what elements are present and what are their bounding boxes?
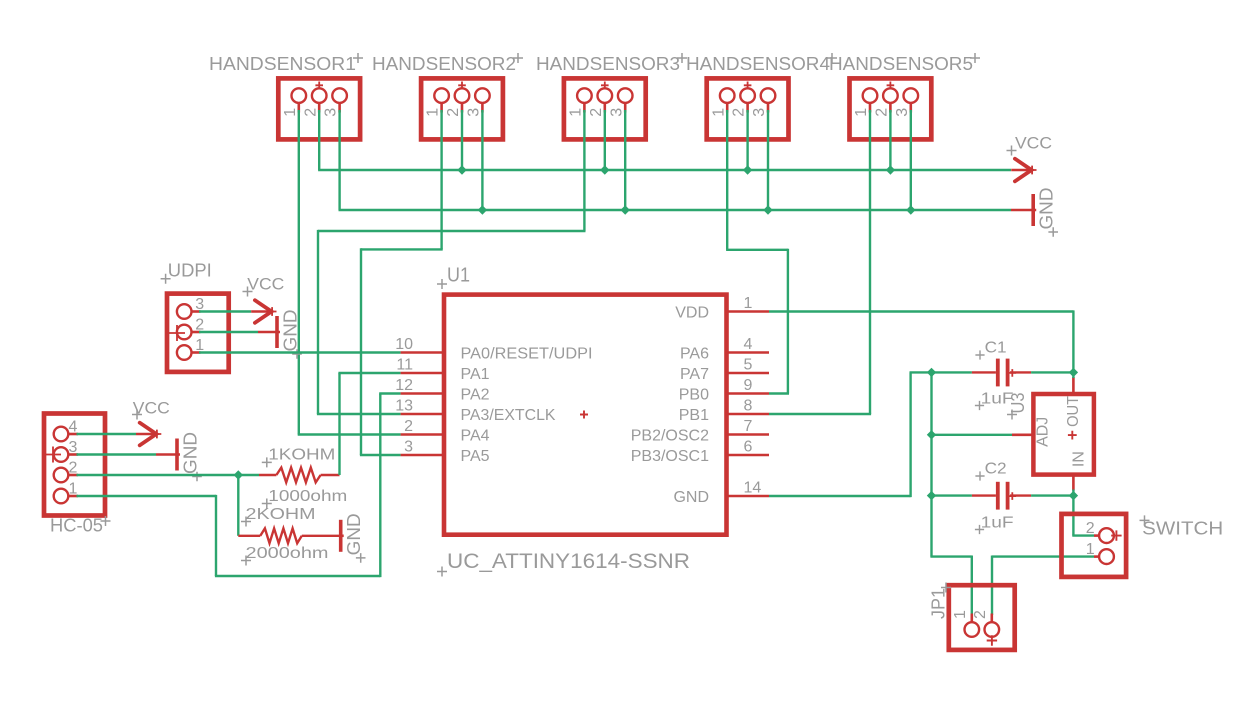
value label 1uF C2	[975, 515, 1014, 535]
svg-text:PB3/OSC1: PB3/OSC1	[631, 448, 709, 465]
label U3	[1007, 393, 1028, 420]
label VCC top right	[1007, 134, 1053, 155]
svg-text:C2: C2	[985, 461, 1007, 478]
label UDPI	[161, 260, 212, 284]
junction C2 left GND column	[927, 491, 936, 500]
wire UDPI pin1 to U1 PA0 pin10	[199, 351, 401, 353]
label VCC at UDPI	[243, 276, 285, 297]
wire junction down to R2	[237, 475, 239, 536]
junction C2 right IN node	[1069, 491, 1078, 500]
ground GND symbol at HC-05	[156, 432, 202, 481]
junction GND rail at HANDSENSOR5 pin3	[906, 205, 915, 214]
label HC-05	[50, 515, 111, 536]
label C1	[975, 340, 1006, 360]
wire C1 right to VDD node	[1031, 371, 1073, 373]
svg-text:PA4: PA4	[461, 427, 490, 444]
pin numbers HANDSENSOR4	[710, 108, 768, 117]
connector HANDSENSOR4	[707, 78, 789, 139]
svg-text:HANDSENSOR4: HANDSENSOR4	[686, 53, 830, 74]
node resistor divider junction	[234, 470, 243, 479]
svg-text:3: 3	[466, 108, 483, 117]
svg-text:PA2: PA2	[461, 386, 490, 403]
svg-text:ADJ: ADJ	[1035, 417, 1052, 447]
label 2KOHM	[241, 506, 316, 527]
label C2	[975, 461, 1006, 481]
svg-text:12: 12	[395, 377, 413, 394]
connector HC-05	[44, 414, 105, 516]
wire HANDSENSOR3 pin2 to VCC rail	[604, 110, 606, 170]
svg-text:OUT: OUT	[1065, 396, 1082, 427]
svg-text:10: 10	[395, 336, 413, 353]
wire HC-05 pin4 to VCC	[77, 433, 137, 435]
junction C1 left GND column	[927, 368, 936, 377]
wire HANDSENSOR2 pin1 to U1 PA5	[360, 110, 443, 455]
label 1KOHM	[262, 447, 336, 468]
pin name ADJ U3	[1035, 417, 1052, 447]
pin numbers HANDSENSOR2	[425, 108, 483, 117]
wire HANDSENSOR4 pin3 to GND rail	[767, 110, 769, 210]
svg-text:PA1: PA1	[461, 366, 490, 383]
svg-text:9: 9	[744, 377, 753, 394]
junction GND rail at HANDSENSOR2 pin3	[478, 205, 487, 214]
svg-text:4: 4	[69, 419, 78, 436]
label HANDSENSOR5	[829, 53, 980, 74]
svg-text:GND: GND	[343, 513, 364, 555]
svg-text:1: 1	[744, 295, 753, 312]
pin numbers HC-05	[69, 419, 78, 498]
svg-text:GND: GND	[673, 489, 709, 506]
svg-text:HANDSENSOR2: HANDSENSOR2	[372, 53, 516, 74]
svg-text:VDD: VDD	[675, 304, 709, 321]
pin name OUT U3	[1065, 396, 1082, 427]
label SWITCH	[1140, 515, 1224, 538]
connector HANDSENSOR2	[421, 78, 503, 139]
svg-text:3: 3	[751, 108, 768, 117]
svg-text:5: 5	[744, 357, 753, 374]
power VCC symbol at UDPI	[251, 300, 276, 323]
svg-text:PA5: PA5	[461, 448, 490, 465]
voltage regulator U3 body and pins	[1012, 377, 1094, 491]
svg-text:2: 2	[1086, 520, 1095, 537]
svg-text:UDPI: UDPI	[168, 260, 212, 281]
svg-text:HC-05: HC-05	[50, 515, 103, 536]
junction VCC rail at HANDSENSOR3 pin2	[600, 165, 609, 174]
wire HC-05 pin3 to GND	[77, 453, 157, 455]
wire OUT to C1 node	[1072, 372, 1074, 378]
svg-text:U3: U3	[1007, 393, 1028, 414]
junction GND rail at HANDSENSOR3 pin3	[621, 205, 630, 214]
svg-text:U1: U1	[447, 265, 470, 287]
value label 2000ohm	[241, 545, 329, 566]
wire VCC rail from HANDSENSOR1 pin2 across to VCC symbol	[318, 110, 1011, 170]
svg-text:1: 1	[69, 481, 78, 498]
pin name IN U3	[1070, 451, 1087, 467]
label HANDSENSOR1	[209, 53, 363, 74]
wire R1 to U1 PA1	[338, 373, 400, 475]
svg-text:GND: GND	[1036, 188, 1057, 230]
wire HANDSENSOR4 pin1 to U1 PB0	[726, 110, 789, 394]
power VCC symbol top right	[1011, 159, 1036, 182]
junction ADJ GND column	[927, 430, 936, 439]
svg-text:1: 1	[282, 108, 299, 117]
svg-text:3: 3	[608, 108, 625, 117]
connector HANDSENSOR3	[564, 78, 646, 139]
wire IN node to SWITCH pin2	[1072, 496, 1094, 536]
connector UDPI	[167, 294, 229, 372]
connector SWITCH	[1062, 514, 1127, 577]
svg-text:1: 1	[952, 610, 969, 619]
svg-text:2000ohm: 2000ohm	[246, 545, 329, 562]
svg-text:2: 2	[404, 418, 413, 435]
svg-text:VCC: VCC	[247, 276, 284, 294]
resistor R2 2KOHM	[238, 528, 339, 543]
svg-text:6: 6	[744, 439, 753, 456]
pin numbers JP1	[952, 610, 989, 619]
svg-text:3: 3	[323, 108, 340, 117]
label HANDSENSOR4	[686, 53, 837, 74]
wire GND column to U3 ADJ	[932, 434, 1013, 436]
svg-text:13: 13	[395, 398, 413, 415]
wire U1 GND pin14 to GND node	[769, 372, 932, 497]
IC U1 UC_ATTINY1614-SSNR body and pin stubs	[401, 295, 769, 535]
wire HC-05 pin1 to U1 PA2	[77, 394, 401, 578]
svg-text:HANDSENSOR5: HANDSENSOR5	[829, 53, 973, 74]
wire GND node to C2 left	[932, 494, 972, 496]
capacitor C2	[972, 482, 1031, 510]
svg-text:HANDSENSOR1: HANDSENSOR1	[209, 53, 356, 74]
svg-text:1: 1	[1086, 541, 1095, 558]
wire HANDSENSOR2 pin2 to VCC rail	[461, 110, 463, 170]
svg-text:HANDSENSOR3: HANDSENSOR3	[536, 53, 680, 74]
wire HANDSENSOR2 pin3 to GND rail	[481, 110, 483, 210]
wire HANDSENSOR5 pin1 to U1 PB1	[769, 110, 871, 414]
label HANDSENSOR2	[372, 53, 523, 74]
wire HANDSENSOR4 pin2 to VCC rail	[746, 110, 748, 170]
power VCC symbol at HC-05	[136, 423, 161, 446]
svg-text:1: 1	[425, 108, 442, 117]
label JP1	[928, 583, 951, 620]
capacitor C1	[972, 359, 1031, 387]
svg-text:3: 3	[404, 439, 413, 456]
junction VCC rail at HANDSENSOR5 pin2	[886, 165, 895, 174]
wire HANDSENSOR1 pin1 to U1 PA4	[298, 110, 401, 435]
svg-text:PA0/RESET/UDPI: PA0/RESET/UDPI	[461, 345, 593, 362]
wire U1 VDD to C1/OUT node	[769, 310, 1073, 372]
svg-text:IN: IN	[1070, 451, 1087, 467]
svg-text:8: 8	[744, 398, 753, 415]
pin numbers HANDSENSOR1	[282, 108, 340, 117]
svg-text:1: 1	[568, 108, 585, 117]
svg-text:PA6: PA6	[680, 345, 709, 362]
svg-text:GND: GND	[280, 310, 301, 352]
pin numbers and pin names U1	[395, 295, 761, 506]
svg-text:2: 2	[302, 108, 319, 117]
junction GND rail at HANDSENSOR4 pin3	[763, 205, 772, 214]
ground GND symbol at R2	[339, 513, 366, 562]
svg-text:7: 7	[744, 418, 753, 435]
svg-text:1uF: 1uF	[981, 515, 1014, 532]
wire HANDSENSOR3 pin1 to U1 PA3	[317, 110, 586, 414]
svg-text:1: 1	[853, 108, 870, 117]
wire GND column down to JP1 pin1	[930, 372, 971, 615]
ground GND symbol top right	[1011, 188, 1058, 237]
svg-text:VCC: VCC	[1015, 134, 1052, 152]
label U1	[437, 265, 470, 290]
wire HANDSENSOR5 pin2 to VCC rail	[889, 110, 891, 170]
svg-text:1000ohm: 1000ohm	[268, 488, 347, 505]
wire HANDSENSOR3 pin3 to GND rail	[624, 110, 626, 210]
wire junction to R1	[238, 474, 259, 476]
svg-text:PA3/EXTCLK: PA3/EXTCLK	[461, 407, 556, 424]
wire IN to C2 node	[1072, 490, 1074, 496]
svg-text:1KOHM: 1KOHM	[268, 447, 335, 464]
label HANDSENSOR3	[536, 53, 687, 74]
svg-text:SWITCH: SWITCH	[1142, 518, 1223, 539]
resistor R1 1KOHM	[259, 468, 340, 483]
svg-text:UC_ATTINY1614-SSNR: UC_ATTINY1614-SSNR	[447, 549, 690, 573]
svg-text:2: 2	[588, 108, 605, 117]
value label 1000ohm	[262, 488, 348, 509]
value label 1uF C1	[975, 390, 1014, 410]
svg-text:2: 2	[445, 108, 462, 117]
label VCC at HC-05	[132, 399, 170, 419]
wire GND node to C1 left	[932, 371, 972, 373]
connector HANDSENSOR1	[278, 78, 360, 139]
connector HANDSENSOR5	[850, 78, 932, 139]
svg-text:1: 1	[710, 108, 727, 117]
svg-text:2: 2	[972, 610, 989, 619]
wire GND rail from HANDSENSOR1 pin3 across to GND symbol	[339, 110, 1012, 210]
svg-text:JP1: JP1	[928, 588, 949, 619]
wire UDPI pin2 to GND	[199, 331, 258, 333]
pin numbers SWITCH	[1086, 520, 1095, 558]
junction VCC rail at HANDSENSOR4 pin2	[743, 165, 752, 174]
svg-text:14: 14	[744, 480, 762, 497]
pin numbers UDPI	[195, 296, 204, 354]
wire SWITCH pin1 to JP1 pin2	[992, 556, 1094, 616]
svg-text:2KOHM: 2KOHM	[246, 506, 316, 523]
svg-text:2: 2	[731, 108, 748, 117]
wire HC-05 pin2 to resistor node	[77, 474, 239, 476]
junction VCC rail at HANDSENSOR2 pin2	[457, 165, 466, 174]
svg-text:C1: C1	[985, 340, 1007, 357]
svg-text:PB0: PB0	[679, 386, 709, 403]
svg-text:GND: GND	[180, 432, 201, 474]
wire HANDSENSOR5 pin3 to GND rail	[910, 110, 912, 210]
junction C1 right VDD node	[1069, 368, 1078, 377]
svg-text:2: 2	[69, 460, 78, 477]
wire UDPI pin3 to VCC	[199, 310, 251, 312]
svg-text:PB1: PB1	[679, 407, 709, 424]
connector JP1	[949, 585, 1015, 650]
pin numbers HANDSENSOR3	[568, 108, 626, 117]
pin numbers HANDSENSOR5	[853, 108, 911, 117]
svg-text:2: 2	[874, 108, 891, 117]
svg-text:PB2/OSC2: PB2/OSC2	[631, 427, 709, 444]
svg-text:3: 3	[69, 439, 78, 456]
wire C2 right to IN node	[1031, 494, 1073, 496]
value label UC_ATTINY1614-SSNR	[437, 549, 690, 577]
svg-text:PA7: PA7	[680, 366, 709, 383]
svg-text:4: 4	[744, 336, 753, 353]
svg-text:11: 11	[396, 357, 413, 374]
ground GND symbol at UDPI	[258, 310, 302, 359]
svg-text:3: 3	[894, 108, 911, 117]
